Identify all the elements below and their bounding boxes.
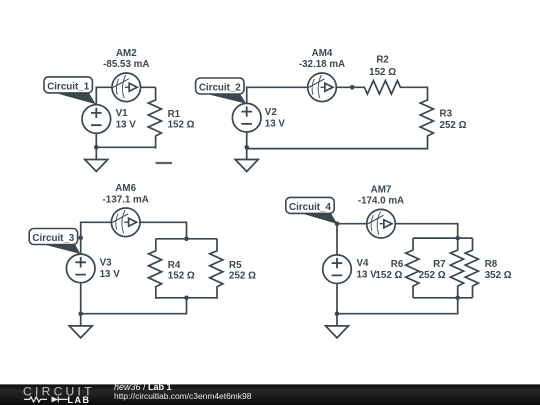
svg-text:R7: R7 (433, 259, 446, 270)
svg-text:Circuit_3: Circuit_3 (32, 233, 74, 244)
svg-text:R4: R4 (168, 260, 181, 271)
svg-text:13 V: 13 V (357, 270, 378, 281)
svg-text:V1: V1 (116, 108, 129, 119)
svg-text:Circuit_4: Circuit_4 (289, 202, 331, 213)
svg-text:152 Ω: 152 Ω (375, 270, 402, 281)
svg-text:13 V: 13 V (116, 120, 137, 131)
svg-text:-85.53 mA: -85.53 mA (103, 59, 149, 70)
svg-text:Circuit_2: Circuit_2 (199, 83, 241, 94)
svg-text:252 Ω: 252 Ω (229, 270, 256, 281)
svg-text:V3: V3 (100, 257, 113, 268)
svg-text:V4: V4 (357, 258, 370, 269)
svg-text:252 Ω: 252 Ω (440, 120, 467, 131)
svg-text:Circuit_1: Circuit_1 (47, 81, 89, 92)
svg-text:http://circuitlab.com/c3enm4et: http://circuitlab.com/c3enm4et6mk98 (114, 391, 252, 401)
svg-text:AM4: AM4 (312, 48, 333, 59)
svg-text:R5: R5 (229, 260, 242, 271)
svg-text:AM6: AM6 (115, 183, 136, 194)
svg-text:LAB: LAB (68, 395, 91, 405)
svg-text:152 Ω: 152 Ω (168, 270, 195, 281)
svg-text:R2: R2 (376, 55, 389, 66)
svg-text:-32.18 mA: -32.18 mA (299, 59, 345, 70)
svg-text:-174.0 mA: -174.0 mA (358, 196, 404, 207)
svg-text:252 Ω: 252 Ω (419, 270, 446, 281)
svg-text:R6: R6 (391, 259, 404, 270)
svg-text:352 Ω: 352 Ω (485, 270, 512, 281)
svg-text:R1: R1 (168, 109, 181, 120)
svg-text:V2: V2 (265, 107, 278, 118)
svg-text:13 V: 13 V (265, 118, 286, 129)
svg-text:AM2: AM2 (116, 48, 137, 59)
svg-text:13 V: 13 V (100, 269, 121, 280)
svg-text:152 Ω: 152 Ω (168, 119, 195, 130)
svg-text:152 Ω: 152 Ω (369, 67, 396, 78)
svg-text:-137.1 mA: -137.1 mA (103, 195, 149, 206)
svg-text:R8: R8 (485, 259, 498, 270)
svg-text:R3: R3 (440, 109, 453, 120)
svg-text:AM7: AM7 (371, 184, 392, 195)
